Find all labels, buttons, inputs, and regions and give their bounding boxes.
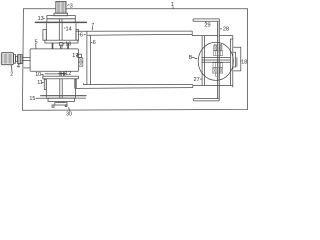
label 6 upper bbox=[80, 32, 83, 38]
hatched stack lower bbox=[79, 62, 83, 66]
label 14 bbox=[66, 27, 72, 33]
screw flanges bbox=[59, 72, 67, 74]
svg-text:28: 28 bbox=[223, 27, 229, 33]
lower box bbox=[48, 98, 74, 101]
housing frame 1 bbox=[23, 9, 248, 111]
lower gearbox right wall bbox=[75, 79, 77, 98]
bottom clamp assembly bbox=[213, 63, 223, 76]
leader for 17 bbox=[76, 54, 77, 56]
svg-text:1: 1 bbox=[171, 2, 174, 8]
label 4 bbox=[17, 64, 20, 70]
upper gearbox screw channel bbox=[59, 23, 62, 40]
label 29 bbox=[204, 23, 210, 29]
nut under plate bbox=[60, 43, 63, 46]
svg-text:10: 10 bbox=[35, 72, 41, 78]
label 1 bbox=[171, 2, 174, 8]
spacer row under plate 13 bbox=[47, 19, 75, 23]
svg-text:6: 6 bbox=[80, 32, 83, 38]
stems bbox=[59, 102, 63, 103]
bracket 18 inner vertical bbox=[236, 57, 238, 67]
slide rect bottom bbox=[193, 85, 233, 87]
label 12 bbox=[65, 71, 71, 77]
right column tick bbox=[230, 38, 232, 40]
svg-text:11: 11 bbox=[37, 80, 43, 86]
leader for 6 upper bbox=[78, 34, 86, 36]
lower gearbox right tab bbox=[75, 79, 77, 88]
bar end cap bbox=[192, 85, 194, 88]
motor 2 shaft bbox=[14, 55, 16, 64]
leader for 12 bbox=[64, 73, 65, 75]
screw stub to big box bbox=[60, 46, 62, 49]
bar to slide rect top line bbox=[83, 84, 192, 86]
foot c bbox=[65, 105, 67, 107]
leader for 28 bbox=[220, 28, 222, 30]
leader for 4 bbox=[20, 63, 21, 64]
leader for 14 bbox=[64, 27, 65, 29]
top clamp assembly bbox=[214, 44, 223, 55]
lower gearbox left tab bbox=[44, 79, 46, 89]
label 15 bbox=[29, 96, 35, 102]
label 3 bbox=[70, 3, 73, 9]
foot b bbox=[52, 105, 54, 107]
screw shaft 28 bbox=[218, 21, 220, 98]
leader for 16 bbox=[63, 43, 64, 45]
svg-text:6: 6 bbox=[93, 40, 96, 46]
bracket 18 inner rect bbox=[233, 52, 235, 67]
upper gearbox right wall bbox=[75, 23, 77, 40]
leader for 2 bbox=[10, 65, 13, 71]
leader for 11 bbox=[42, 82, 44, 84]
upper gearbox left tab bbox=[43, 30, 46, 41]
leader for 3 bbox=[67, 4, 69, 7]
leader for 30 bbox=[69, 107, 70, 111]
leader for 7 bbox=[91, 27, 93, 30]
channel vertical right 6 bbox=[89, 35, 91, 84]
bracket 18 outer bbox=[233, 47, 240, 71]
svg-text:3: 3 bbox=[70, 3, 73, 9]
svg-text:30: 30 bbox=[66, 112, 72, 118]
thin line over lower plate bbox=[45, 73, 66, 75]
svg-text:4: 4 bbox=[17, 64, 20, 70]
leader for 18 bbox=[240, 60, 241, 62]
upper gearbox right tab bbox=[76, 30, 79, 41]
channel vertical left 6 bbox=[86, 31, 88, 84]
leader for 13 bbox=[43, 18, 44, 20]
motor 2 bbox=[1, 53, 13, 65]
hanger rod right bbox=[67, 43, 70, 49]
plate 13 bbox=[47, 16, 75, 19]
label 27 bbox=[194, 77, 200, 83]
support rail (thick line) bbox=[35, 21, 86, 23]
svg-text:14: 14 bbox=[66, 27, 72, 33]
label 16 bbox=[65, 42, 71, 48]
hanger rod left bbox=[51, 43, 54, 49]
plate 29 bbox=[193, 19, 220, 21]
squiggle leader for B bbox=[192, 57, 197, 59]
hatched stack upper (17) bbox=[79, 58, 83, 62]
label B bbox=[189, 55, 193, 61]
lower gearbox top plate bbox=[43, 76, 79, 79]
bar lip bbox=[82, 83, 84, 85]
svg-text:29: 29 bbox=[204, 23, 210, 29]
label 5 bbox=[35, 39, 38, 45]
shelf line to frame bbox=[24, 67, 31, 69]
top line of slide rect bbox=[192, 35, 233, 37]
leader for 27 bbox=[200, 78, 202, 80]
leader for 1 bbox=[172, 7, 175, 9]
motor 3 base flange bbox=[54, 13, 68, 16]
label 2 bbox=[10, 72, 13, 78]
line lower channel bbox=[87, 33, 192, 36]
label 11 bbox=[37, 80, 43, 86]
svg-text:27: 27 bbox=[194, 77, 200, 83]
leader line 15 bbox=[36, 97, 86, 99]
slide rect right columns bbox=[230, 36, 232, 88]
line 7 upper bbox=[76, 30, 192, 32]
label 13 bbox=[38, 16, 44, 22]
motor 3 bbox=[56, 1, 67, 13]
svg-text:15: 15 bbox=[29, 96, 35, 102]
rails bbox=[202, 58, 231, 63]
label 17 bbox=[72, 53, 78, 59]
small box bbox=[55, 103, 67, 105]
svg-text:13: 13 bbox=[38, 16, 44, 22]
lower gearbox screw channel bbox=[60, 79, 62, 98]
upper gearbox left wall bbox=[45, 23, 47, 40]
wide line under gearbox bbox=[40, 95, 86, 97]
label 30 bbox=[66, 112, 72, 118]
leader for 5 bbox=[35, 44, 37, 49]
label 28 bbox=[223, 27, 229, 33]
svg-text:18: 18 bbox=[241, 59, 247, 65]
leader for 10 bbox=[41, 74, 43, 76]
leader for 29 bbox=[205, 21, 207, 23]
rods in spacer row bbox=[60, 19, 63, 23]
lower screws from big box bbox=[60, 71, 65, 76]
bar bottom line bbox=[76, 87, 193, 90]
label 7 bbox=[91, 23, 94, 29]
leader for 6 lower bbox=[91, 41, 92, 43]
foot bar under shaft bbox=[193, 99, 219, 101]
big box bbox=[30, 49, 78, 71]
label 18 bbox=[241, 59, 247, 65]
channel cap bbox=[191, 31, 193, 35]
coupling 4 bbox=[18, 55, 22, 64]
label 6 lower bbox=[93, 40, 96, 46]
shaft into big box bbox=[22, 58, 30, 61]
lower gearbox left wall bbox=[45, 79, 47, 98]
label 10 bbox=[35, 72, 41, 78]
slide rect left columns bbox=[202, 36, 205, 86]
circle B bbox=[198, 42, 233, 80]
upper gearbox bottom plate bbox=[45, 40, 78, 43]
svg-text:2: 2 bbox=[10, 72, 13, 78]
